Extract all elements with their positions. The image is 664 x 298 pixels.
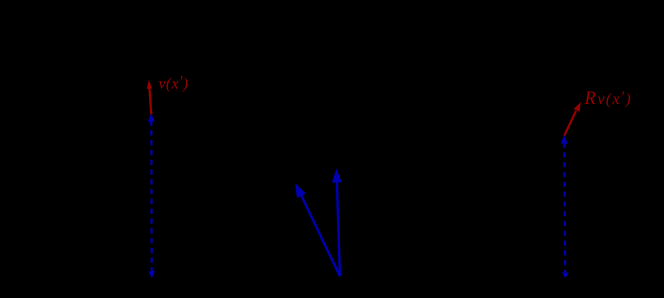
reflected normal vector arrow R nu(x') at right point	[564, 102, 581, 136]
middle right near-vertical blue arrow	[332, 168, 342, 276]
normal vector arrow nu(x') at left point	[147, 80, 152, 115]
svg-text:Rν(x′): Rν(x′)	[584, 89, 632, 109]
svg-text:ν(x′): ν(x′)	[159, 73, 189, 92]
vertical dashed double arrow through x' (right)	[561, 135, 569, 278]
vertical dashed double arrow through x' (left)	[148, 113, 155, 278]
middle left slanted blue arrow	[295, 183, 340, 276]
